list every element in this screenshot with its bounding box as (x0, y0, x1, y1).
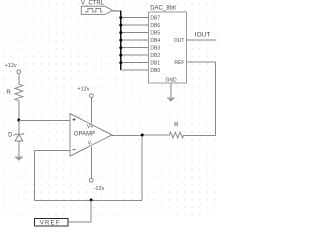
digital stimulus V_CTRL symbol (81, 6, 112, 14)
svg-text:V_CTRL: V_CTRL (81, 1, 105, 7)
svg-text:VREF: VREF (40, 221, 61, 227)
resistor R2 (142, 132, 183, 138)
svg-text:V-: V- (88, 141, 93, 147)
ground symbol (DAC) (167, 98, 175, 101)
wire +12v to op-amp V+ (90, 98, 92, 124)
wire op-amp V- to -12v (90, 146, 92, 178)
VREF connector box (34, 218, 68, 226)
svg-text:DB6: DB6 (150, 23, 160, 29)
wire bus to DB7 (121, 17, 149, 19)
diode D1 zener cathode bar (14, 133, 24, 136)
junction dot bus DB6 (119, 24, 122, 27)
wire VREF to feedback line (68, 200, 91, 222)
op-amp plus input sign (73, 118, 76, 121)
svg-text:DB0: DB0 (150, 68, 160, 74)
junction dot VREF node (90, 199, 93, 202)
wire bus to DB4 (121, 39, 149, 41)
wire stimulus to bus (113, 10, 121, 12)
svg-text:GND: GND (165, 77, 177, 83)
svg-text:+12v: +12v (77, 87, 89, 93)
wire diode D1 to ground (18, 141, 20, 157)
wire OUT stub (186, 39, 216, 41)
wire feedback bottom horizontal (35, 199, 143, 201)
junction dot node plus-input (17, 119, 20, 122)
svg-text:R: R (6, 90, 11, 96)
wire bus to DB1 (121, 62, 149, 64)
junction dot bus DB1 (119, 61, 122, 64)
wire feedback left vertical (34, 150, 36, 200)
svg-text:DB7: DB7 (150, 15, 160, 21)
DAC U1 box (148, 12, 186, 83)
wire resistor R1 to diode D1 (18, 101, 20, 135)
junction dot bus DB5 (119, 31, 122, 34)
junction dot bus DB2 (119, 54, 122, 57)
junction dot bus DB3 (119, 46, 122, 49)
svg-text:DAC_8bit: DAC_8bit (150, 5, 176, 11)
wire feedback op-amp minus input (35, 149, 70, 151)
wire +12v to resistor R1 (18, 74, 20, 85)
svg-text:DB4: DB4 (150, 38, 160, 44)
junction dot bus DB4 (119, 39, 122, 42)
wire node to op-amp plus input (19, 119, 70, 121)
svg-text:OUT: OUT (174, 38, 185, 44)
junction dot bus DB7 (119, 16, 122, 19)
power +12v bubble (op-amp) (90, 94, 94, 98)
svg-text:DB2: DB2 (150, 53, 160, 59)
svg-text:-12v: -12v (94, 186, 105, 192)
bus vertical wire (120, 11, 122, 71)
op-amp U2 triangle (70, 114, 112, 157)
svg-text:DB5: DB5 (150, 30, 160, 36)
wire REF to resistor R2 (184, 62, 216, 135)
wire bus to DB5 (121, 32, 149, 34)
wire op-amp output (112, 134, 142, 136)
wire bus to DB2 (121, 54, 149, 56)
svg-text:+12v: +12v (5, 63, 17, 69)
diode D1 triangle (15, 134, 23, 141)
svg-text:DB3: DB3 (150, 45, 160, 51)
junction dot output node (141, 134, 144, 137)
svg-text:D: D (8, 132, 13, 138)
wire bus to DB0 (121, 69, 149, 71)
wire bus to DB6 (121, 24, 149, 26)
svg-text:V+: V+ (87, 124, 93, 130)
power +12v bubble (left) (17, 70, 21, 74)
power -12v bubble (89, 178, 93, 182)
svg-text:OPAMP: OPAMP (74, 132, 95, 138)
op-amp minus input sign (73, 149, 76, 151)
wire feedback right vertical to output (141, 135, 143, 200)
svg-text:IOUT: IOUT (195, 31, 211, 38)
ground symbol (left) (15, 157, 23, 160)
svg-text:REF: REF (174, 60, 184, 66)
wire bus to DB3 (121, 47, 149, 49)
resistor R1 (15, 84, 23, 100)
wire GND pin to ground (170, 83, 172, 98)
svg-text:R: R (174, 123, 179, 129)
svg-text:DB1: DB1 (150, 60, 160, 66)
